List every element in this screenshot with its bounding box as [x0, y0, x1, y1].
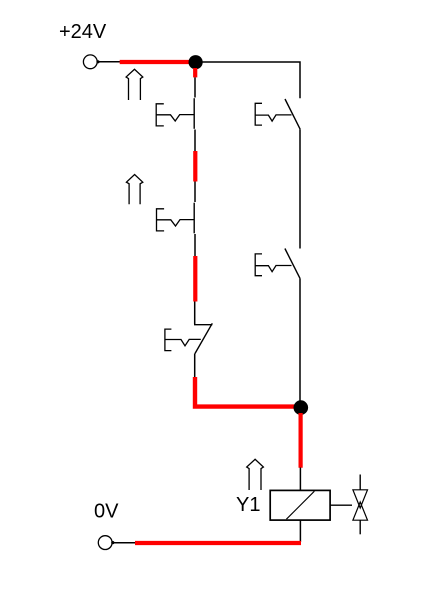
terminal +24V [83, 55, 99, 69]
wire right branch middle [299, 129, 301, 248]
wire energized segment 2 [193, 151, 197, 182]
wire left branch segment 1 [194, 77, 196, 97]
relay coil Y1 [270, 490, 330, 520]
actuation arrow A1 [126, 69, 143, 100]
wire energized corner to J2 [195, 377, 301, 407]
switch S3 break contact open [165, 302, 212, 354]
junction J2 [294, 400, 309, 415]
actuation arrow A2 [126, 175, 142, 205]
terminal 0V [98, 536, 114, 550]
actuation arrow A3 [247, 459, 264, 490]
wire right branch lower [299, 279, 301, 401]
switch S2 make contact closed [157, 203, 195, 234]
wire energized segment below J2 [299, 413, 303, 468]
svg-text:+24V: +24V [59, 21, 107, 43]
wire 0V rail energized [135, 541, 301, 545]
node 0V label [94, 501, 119, 523]
wire energized segment 3 [193, 256, 197, 302]
wire left branch segment 2 [194, 130, 196, 152]
label Y1 [236, 494, 260, 516]
wire coil bottom [299, 520, 301, 542]
wire +24V rail energized [120, 60, 194, 64]
wire top rail to right branch [202, 62, 300, 98]
wire coil to valve [330, 504, 352, 506]
wire energized segment below J1 [193, 68, 197, 77]
switch S1 make contact closed [156, 98, 194, 129]
wire left branch segment 5 [194, 354, 196, 378]
valve symbol [353, 475, 368, 535]
wire +24V stub [98, 61, 121, 63]
wire left branch segment 3 [194, 182, 196, 203]
wire 0V stub [113, 542, 136, 544]
wire to coil [299, 468, 301, 491]
switch S4 make contact open right top [255, 99, 300, 129]
node +24V label [59, 21, 107, 43]
junction J1 [189, 55, 203, 69]
switch S5 make contact open right bottom [255, 249, 300, 279]
svg-text:Y1: Y1 [236, 494, 260, 516]
wire left branch segment 4 [194, 234, 196, 256]
svg-text:0V: 0V [94, 501, 119, 523]
